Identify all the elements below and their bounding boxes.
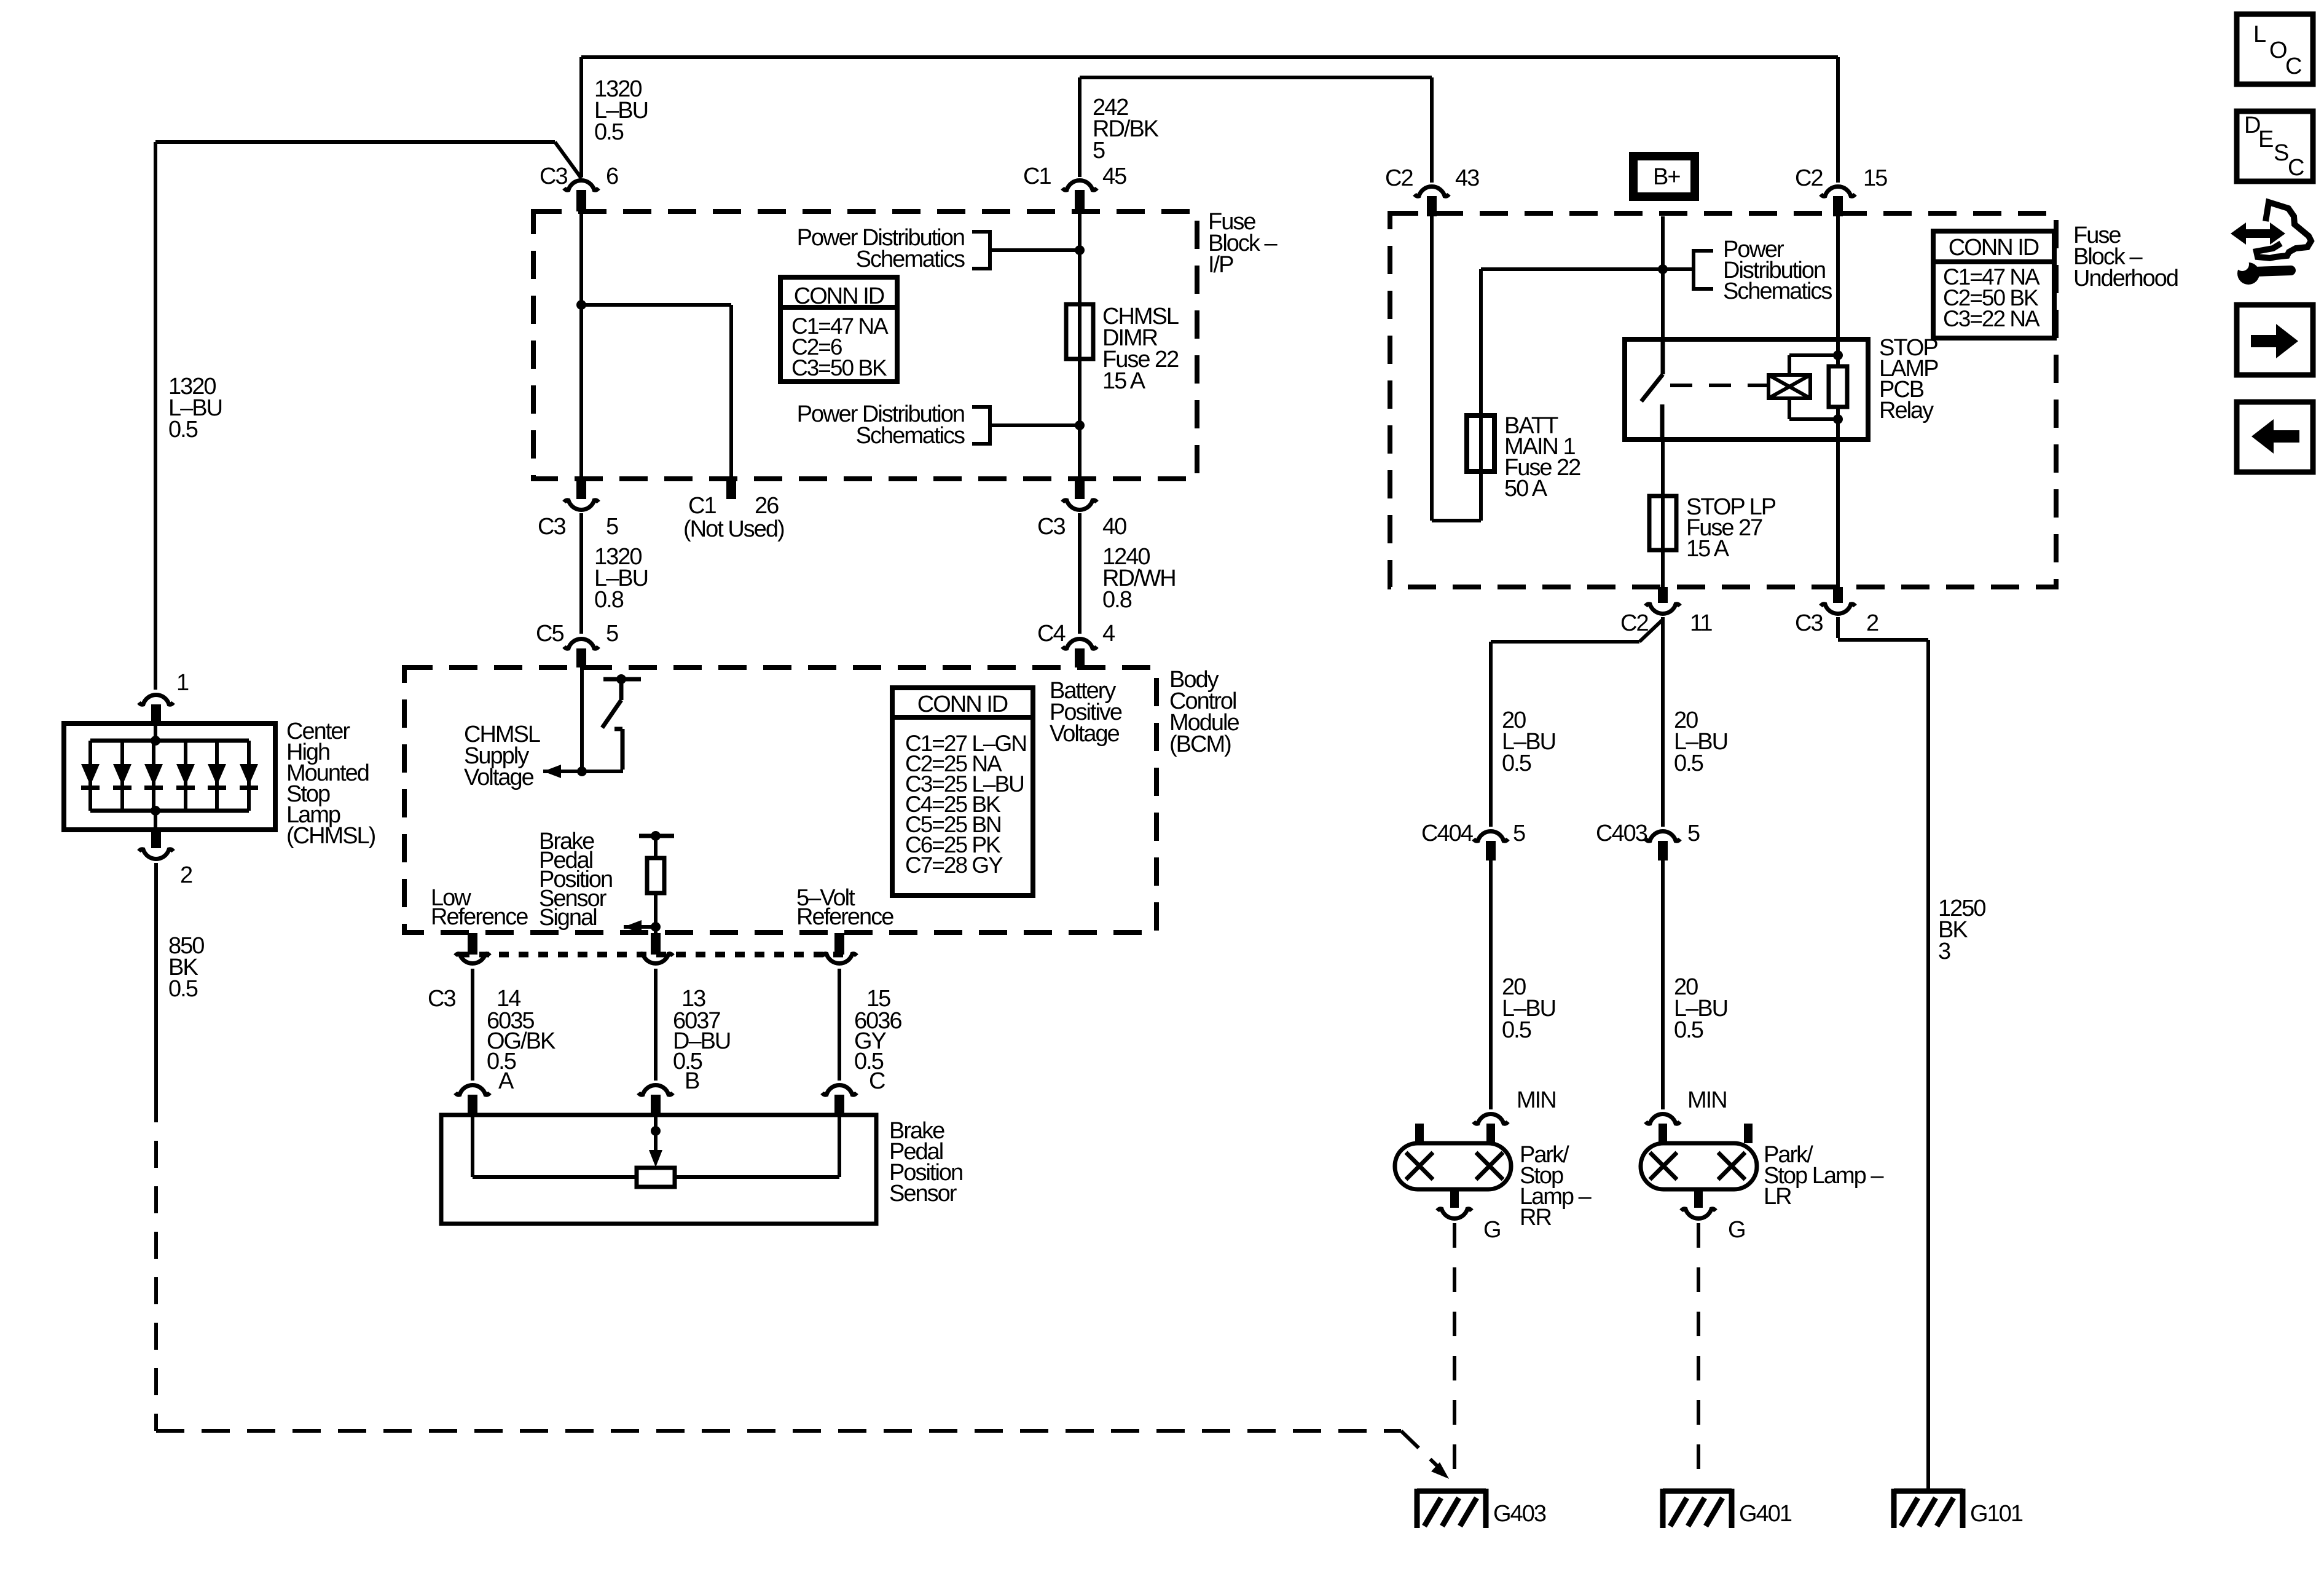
svg-text:G403: G403 (1493, 1501, 1546, 1527)
svg-text:(BCM): (BCM) (1169, 731, 1231, 757)
svg-text:Schematics: Schematics (856, 423, 965, 449)
svg-text:(Not Used): (Not Used) (683, 516, 784, 542)
svg-text:5: 5 (1093, 138, 1105, 163)
svg-text:C: C (2285, 53, 2301, 79)
svg-text:C2: C2 (1385, 165, 1413, 191)
svg-text:Underhood: Underhood (2073, 266, 2178, 291)
svg-text:G401: G401 (1739, 1501, 1792, 1527)
svg-text:C3=50 BK: C3=50 BK (791, 355, 887, 380)
svg-text:3: 3 (1938, 939, 1950, 964)
svg-text:A: A (498, 1068, 514, 1094)
svg-text:0.8: 0.8 (1102, 587, 1132, 613)
svg-text:C1: C1 (688, 493, 716, 519)
svg-text:50 A: 50 A (1504, 476, 1548, 502)
svg-text:C4: C4 (1037, 621, 1066, 647)
svg-text:C5: C5 (536, 621, 563, 647)
svg-text:2: 2 (1866, 610, 1878, 636)
svg-text:C7=28 GY: C7=28 GY (905, 853, 1003, 878)
svg-text:4: 4 (1102, 621, 1115, 647)
svg-text:Signal: Signal (539, 905, 597, 931)
svg-text:O: O (2269, 37, 2287, 63)
svg-text:C3: C3 (540, 163, 567, 189)
svg-text:2: 2 (180, 862, 192, 888)
svg-text:S: S (2274, 140, 2288, 166)
svg-text:1: 1 (176, 670, 189, 696)
svg-text:40: 40 (1102, 514, 1126, 540)
svg-text:C3: C3 (538, 514, 565, 540)
svg-text:C3: C3 (1795, 610, 1823, 636)
svg-text:15: 15 (1863, 165, 1887, 191)
svg-text:C3: C3 (428, 986, 455, 1012)
svg-text:5: 5 (606, 514, 618, 540)
svg-text:CONN ID: CONN ID (1949, 235, 2039, 261)
svg-text:C: C (2288, 155, 2304, 181)
svg-text:C: C (869, 1068, 885, 1094)
svg-text:C403: C403 (1596, 821, 1647, 846)
svg-text:E: E (2258, 127, 2273, 152)
svg-text:0.5: 0.5 (1674, 1017, 1703, 1043)
svg-text:C3: C3 (1037, 514, 1065, 540)
svg-text:0.8: 0.8 (594, 587, 624, 613)
svg-text:15 A: 15 A (1102, 368, 1146, 394)
svg-text:0.5: 0.5 (1502, 750, 1531, 776)
svg-text:15 A: 15 A (1686, 536, 1730, 562)
svg-text:5: 5 (1513, 821, 1525, 846)
svg-text:I/P: I/P (1208, 252, 1233, 278)
svg-text:6: 6 (606, 163, 618, 189)
svg-text:Voltage: Voltage (1050, 721, 1120, 747)
svg-text:Voltage: Voltage (464, 765, 534, 790)
svg-text:L: L (2253, 22, 2266, 47)
svg-text:5: 5 (1687, 821, 1700, 846)
svg-text:C3=22 NA: C3=22 NA (1943, 306, 2040, 331)
svg-text:Schematics: Schematics (1723, 278, 1832, 304)
svg-text:C2: C2 (1620, 610, 1648, 636)
svg-text:B: B (685, 1068, 699, 1094)
svg-text:Relay: Relay (1879, 398, 1934, 423)
svg-text:26: 26 (755, 493, 779, 519)
svg-text:0.5: 0.5 (1502, 1017, 1531, 1043)
svg-text:C404: C404 (1421, 821, 1474, 846)
svg-text:Schematics: Schematics (856, 246, 965, 272)
svg-text:Reference: Reference (796, 904, 893, 930)
svg-text:C1: C1 (1023, 163, 1051, 189)
svg-text:B+: B+ (1653, 164, 1680, 190)
svg-text:G: G (1728, 1217, 1745, 1243)
svg-text:0.5: 0.5 (1674, 750, 1703, 776)
svg-text:0.5: 0.5 (168, 976, 198, 1002)
svg-text:5: 5 (606, 621, 618, 647)
svg-text:CONN ID: CONN ID (794, 283, 884, 309)
svg-text:RR: RR (1520, 1205, 1551, 1231)
svg-text:43: 43 (1455, 165, 1479, 191)
svg-text:11: 11 (1690, 610, 1712, 636)
svg-text:(CHMSL): (CHMSL) (286, 823, 375, 849)
svg-text:MIN: MIN (1517, 1087, 1556, 1113)
svg-text:Sensor: Sensor (889, 1181, 957, 1207)
svg-text:C2: C2 (1795, 165, 1823, 191)
svg-text:G: G (1483, 1217, 1501, 1243)
svg-text:MIN: MIN (1687, 1087, 1727, 1113)
svg-text:0.5: 0.5 (168, 417, 198, 443)
svg-text:45: 45 (1102, 163, 1126, 189)
svg-text:CONN ID: CONN ID (917, 691, 1008, 717)
svg-text:LR: LR (1764, 1184, 1791, 1210)
svg-text:0.5: 0.5 (594, 119, 624, 145)
svg-text:Reference: Reference (431, 904, 528, 930)
svg-text:G101: G101 (1970, 1501, 2023, 1527)
